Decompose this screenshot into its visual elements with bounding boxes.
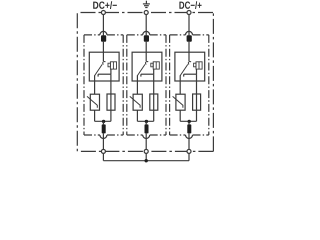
bottom terminal circle 1 [101,149,105,153]
module outline left edge M2 [126,35,128,135]
wire: disconnector to switch box M1 [102,42,104,53]
thermal disconnector (bottom) M1 [102,124,106,133]
module outline bottom jump arc M2 [143,135,150,139]
top terminal circle 1 [101,11,105,15]
wire: junction to lower disconnector M1 [102,121,104,124]
switch blade M1 [95,64,103,75]
enclosure outline left edge (dash-dot) [76,13,78,151]
switch blade pivot curl M3 [188,61,191,64]
wire: top terminal M2 down to thermal disconnector [145,14,147,35]
varistor (MOV) M2 [133,94,142,110]
arc chamber divider M2 [155,62,157,69]
wire: disconnector to switch box M3 [188,42,190,53]
wire: junction to lower disconnector M2 [145,121,147,124]
wire: disconnector to switch box M2 [145,42,147,53]
wire: junction bar M3 [180,120,196,122]
module outline bottom edge M2 [127,134,143,136]
varistor diagonal M2 [130,96,140,107]
module outline top edge M1 [84,34,100,36]
fixed contact bar M2 [141,73,154,75]
arc chamber small cell M2 [151,63,153,67]
wire: entry inside box M2 [145,52,147,61]
wire: box to varistor M2 [136,81,138,94]
varistor (MOV) M1 [90,94,99,110]
svg-text:DC+/−: DC+/− [93,1,118,12]
blade lower terminal stub M3 [179,75,181,81]
varistor (MOV) M3 [176,94,185,110]
fixed contact bar M3 [184,73,197,75]
arc chamber box M1 [110,62,116,69]
module outline top jump arc M2 [143,31,150,34]
top terminal circle 3 [187,11,191,15]
arc chamber box M3 [196,62,202,69]
blade lower terminal stub M2 [136,75,138,81]
wire: bottom terminal 3 to earth bus [188,154,190,161]
varistor diagonal M3 [173,96,183,107]
arc chamber small cell M1 [108,63,110,67]
varistor diagonal M1 [87,96,97,107]
wire: junction bar M1 [95,120,111,122]
fuse M2 [150,94,158,110]
wire: bottom terminal 1 to earth bus [102,154,104,161]
top terminal circle 2 [144,11,148,15]
wire: junction bar M2 [137,120,153,122]
bottom terminal circle 2 [144,149,148,153]
thermal disconnector (bottom) M2 [145,124,149,133]
arc chamber link M2 [153,69,155,74]
wire: entry inside box M1 [102,52,104,61]
wire: fuse branch M2 [153,81,155,121]
wire: top terminal M1 down to thermal disconnector [102,14,104,35]
wire: varistor to junction M3 [179,110,181,121]
arc chamber link M3 [196,69,198,74]
enclosure outline right edge (dash-dot) [212,13,214,152]
module outline left edge M3 [169,35,171,135]
wire: junction to lower disconnector M3 [188,121,190,124]
contact bar right leg M3 [196,74,198,81]
earth bus wire [103,160,189,162]
junction dot M1 [102,120,105,123]
wire: fuse branch M3 [196,81,198,121]
SCI switching device box M2 [132,52,162,81]
arc chamber divider M3 [198,62,200,69]
wire: top terminal M3 down to thermal disconnector [188,14,190,35]
blade lower terminal stub M1 [94,75,96,81]
contact bar left tick M1 [97,74,99,76]
module outline bottom edge M3 [170,134,186,136]
thermal disconnector (top) M2 [144,35,149,42]
junction dot M2 [145,120,148,123]
svg-text:DC−/+: DC−/+ [179,1,202,12]
switch blade M3 [180,64,188,75]
SCI switching device box M1 [89,52,119,81]
bottom terminal circle 3 [187,149,191,153]
module outline top jump arc M1 [100,31,107,34]
fuse M3 [193,94,201,110]
module outline bottom edge M1 [84,134,100,136]
module outline top jump arc M3 [186,31,193,34]
module outline bottom jump arc M3 [186,135,193,139]
thermal disconnector (bottom) M3 [187,124,191,133]
arc chamber box M2 [153,62,159,69]
contact bar right leg M2 [153,74,155,81]
wire: varistor to junction M1 [94,110,96,121]
module outline left edge M1 [83,35,85,135]
arc chamber link M1 [110,69,112,74]
contact bar left tick M2 [140,74,142,76]
wire: entry inside box M3 [188,52,190,61]
thermal disconnector (top) M1 [101,35,106,42]
switch blade M2 [137,64,145,75]
fixed contact bar M1 [98,73,111,75]
earth bus junction dot [145,159,148,162]
wire: to bottom terminal M2 [145,133,147,149]
contact bar right leg M1 [110,74,112,81]
enclosure outline bottom edge (dash-dot) [78,150,214,152]
module outline right edge M3 [208,35,210,135]
wire: fuse branch M1 [110,81,112,121]
SCI switching device box M3 [175,52,205,81]
wire: box to varistor M3 [179,81,181,94]
wire: varistor to junction M2 [136,110,138,121]
arc chamber small cell M3 [194,63,196,67]
wire: to bottom terminal M3 [188,133,190,149]
module outline top edge M3 [170,34,186,36]
contact bar left tick M3 [183,74,185,76]
module outline bottom jump arc M1 [100,135,107,139]
fuse M1 [107,94,115,110]
earth ground symbol [143,1,150,8]
wire: box to varistor M1 [94,81,96,94]
module outline top edge M2 [127,34,143,36]
module outline right edge M1 [122,35,124,135]
switch blade pivot curl M2 [146,61,149,64]
wire: to bottom terminal M1 [102,133,104,149]
junction dot M3 [188,120,191,123]
switch blade pivot curl M1 [103,61,106,64]
arc chamber divider M1 [112,62,114,69]
enclosure outline top edge (dash-dot) [81,12,214,14]
wire: bottom terminal 2 to earth bus [145,154,147,161]
module outline right edge M2 [165,35,167,135]
thermal disconnector (top) M3 [187,35,192,42]
